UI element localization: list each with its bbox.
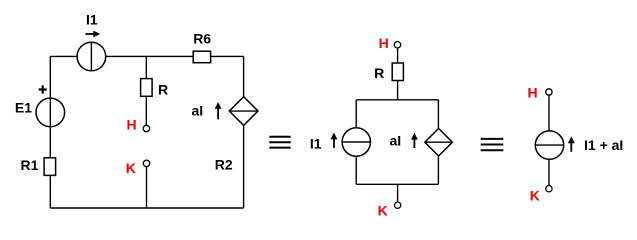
svg-text:R: R bbox=[374, 65, 384, 81]
wire middle branch (node K to bottom rail) bbox=[146, 167, 148, 208]
voltage source E1 bbox=[36, 98, 65, 127]
node H terminal bbox=[546, 89, 552, 95]
wire top rail bbox=[356, 99, 438, 101]
svg-text:I1: I1 bbox=[86, 12, 98, 28]
arrow of aI (points up) bbox=[215, 102, 222, 119]
arrow of I1+aI (points up) bbox=[568, 136, 575, 151]
wire left edge (E1 to R1) bbox=[49, 127, 51, 158]
wire source to K bbox=[548, 159, 550, 185]
svg-text:K: K bbox=[530, 188, 540, 204]
current source I1 bbox=[342, 128, 370, 156]
wire right edge (diamond to bottom corner) bbox=[243, 125, 245, 208]
svg-text:K: K bbox=[378, 202, 388, 218]
resistor R1 bbox=[44, 158, 56, 176]
node H terminal bbox=[394, 42, 400, 48]
node H terminal bbox=[143, 125, 149, 131]
svg-text:E1: E1 bbox=[15, 100, 32, 116]
equivalence symbol 2 bbox=[481, 139, 504, 150]
equivalence symbol 1 bbox=[269, 137, 290, 148]
wire bottom rail bbox=[50, 207, 243, 209]
svg-text:I1: I1 bbox=[310, 136, 322, 152]
wire H to source bbox=[548, 95, 550, 131]
current source I1 bbox=[77, 42, 106, 71]
wire left edge top bbox=[355, 100, 357, 128]
arrow of aI (points up) bbox=[411, 133, 418, 148]
svg-text:R1: R1 bbox=[21, 157, 39, 173]
svg-text:R: R bbox=[158, 82, 168, 98]
wire K stub bbox=[397, 184, 399, 202]
wire R to top rail bbox=[397, 81, 399, 100]
wire top rail (I1 to R6) bbox=[106, 55, 194, 57]
current source I1+aI bbox=[535, 131, 563, 159]
svg-text:aI: aI bbox=[192, 103, 204, 119]
svg-text:H: H bbox=[528, 85, 538, 101]
wire top rail (R6 to right corner) bbox=[211, 55, 244, 57]
svg-text:R6: R6 bbox=[193, 30, 211, 46]
wire H stub bbox=[397, 48, 399, 63]
resistor R6 bbox=[193, 51, 210, 63]
wire bottom rail bbox=[356, 183, 438, 185]
node K terminal bbox=[394, 202, 400, 208]
svg-text:H: H bbox=[379, 35, 389, 51]
svg-text:aI: aI bbox=[390, 133, 402, 149]
wire right edge top bbox=[437, 100, 439, 129]
wire left edge bottom (R1 to bottom rail) bbox=[49, 175, 51, 208]
dependent current source aI (diamond) bbox=[229, 97, 258, 126]
wire right edge bottom bbox=[437, 156, 439, 184]
wire middle branch (top rail to R) bbox=[145, 56, 147, 78]
plus sign of E1 bbox=[39, 85, 47, 93]
wire right edge (top corner to diamond) bbox=[243, 56, 245, 96]
resistor R bbox=[392, 63, 403, 81]
svg-text:R2: R2 bbox=[215, 157, 233, 173]
svg-text:H: H bbox=[127, 116, 137, 132]
node K terminal bbox=[546, 186, 552, 192]
dependent current source aI (diamond) bbox=[425, 128, 453, 156]
wire left edge top (corner to E1) bbox=[49, 56, 51, 98]
wire left edge bottom bbox=[355, 156, 357, 184]
wire middle branch (R to node H) bbox=[145, 96, 147, 125]
svg-text:K: K bbox=[126, 160, 136, 176]
svg-text:I1 + aI: I1 + aI bbox=[584, 137, 623, 153]
node K terminal bbox=[143, 160, 149, 166]
resistor R bbox=[141, 79, 153, 97]
arrow of I1 (points right) bbox=[86, 31, 101, 38]
arrow of I1 (points up) bbox=[331, 133, 338, 148]
wire top rail (corner to I1) bbox=[50, 55, 77, 57]
